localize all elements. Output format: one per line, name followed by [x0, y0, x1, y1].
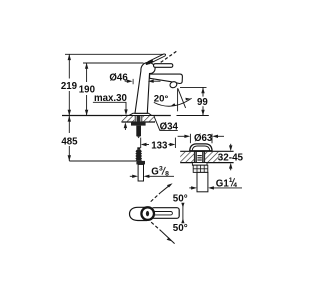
svg-text:Ø34: Ø34 [160, 121, 179, 132]
faucet shank through deck [135, 116, 142, 123]
handle pivot ring [141, 207, 154, 220]
faucet mounting nut [131, 122, 146, 126]
svg-text:485: 485 [61, 137, 78, 148]
deck bottom line [122, 121, 156, 123]
deck hatch section [122, 116, 135, 122]
svg-text:Ø46: Ø46 [109, 72, 128, 83]
svg-text:32-45: 32-45 [218, 152, 244, 163]
spout angle vertical ray [177, 88, 179, 111]
fraction slash G3/8 [162, 167, 166, 175]
svg-text:219: 219 [61, 81, 78, 92]
lever base nub [147, 61, 152, 63]
hose collar [136, 161, 145, 165]
dim 99 line [202, 87, 204, 115]
waste deck hatch [180, 152, 194, 162]
svg-text:190: 190 [79, 84, 95, 95]
svg-text:4: 4 [233, 182, 237, 189]
svg-text:20°: 20° [154, 94, 169, 105]
dim G3/8 arrows [130, 175, 133, 177]
50 deg upper leader [151, 193, 161, 202]
dim 485 line [68, 116, 70, 133]
svg-text:Ø63: Ø63 [194, 133, 213, 144]
faucet lever raised phantom (dashed) [161, 51, 177, 62]
label 190 [78, 84, 96, 95]
svg-text:max.30: max.30 [94, 93, 127, 104]
waste cap [190, 144, 212, 151]
dim 133 extension lines [140, 138, 142, 148]
lever top view [152, 208, 180, 219]
spout angle 20 deg ray [178, 89, 186, 108]
svg-text:3: 3 [159, 165, 163, 172]
faucet lever (solid raised) [148, 54, 165, 64]
svg-text:50°: 50° [173, 193, 188, 204]
hose connector tube G3/8 [138, 164, 143, 181]
waste body thread ticks [197, 156, 201, 160]
svg-text:133: 133 [151, 140, 168, 151]
fraction slash G1 1/4 [231, 178, 235, 186]
label 485 [60, 136, 78, 147]
svg-text:50°: 50° [173, 223, 188, 234]
dim G1 1/4 arrows [189, 187, 192, 189]
faucet base [129, 113, 152, 115]
label 99 [197, 97, 209, 108]
extension line (190 ref, dome top) [83, 62, 144, 64]
max.30 label underline and arrows [93, 101, 127, 103]
waste flange below deck [192, 163, 207, 166]
waste tailpipe G1 1/4 [197, 172, 208, 191]
pivot hub dot [146, 211, 149, 216]
dim 219 line [68, 54, 70, 78]
485 reference line to hose end [69, 160, 136, 162]
dim Ø63 [189, 134, 191, 143]
extension line top (219 ref, faucet top) [65, 53, 166, 55]
lever slot [151, 212, 173, 215]
waste deck lines [180, 150, 233, 152]
dim Ø46 arrows [125, 80, 129, 82]
label 219 [60, 80, 78, 92]
dim 133 line with arrows [146, 144, 150, 146]
dim 190 line [86, 63, 88, 82]
waste body through deck [194, 152, 204, 163]
hose neck [137, 147, 140, 150]
label 133 [150, 140, 168, 151]
svg-text:G: G [151, 167, 159, 178]
label Ø63 [194, 133, 213, 145]
50 deg lower leader [151, 222, 162, 231]
svg-text:G1: G1 [216, 179, 230, 190]
hose corrugated section [135, 150, 142, 161]
dim 32-45 [230, 144, 232, 147]
faucet body column with cartridge dome [135, 63, 155, 114]
Ø34 leader [154, 116, 178, 130]
20 deg arc with arrows [154, 98, 192, 106]
waste locking nut [193, 165, 208, 172]
faucet spout [150, 74, 183, 83]
svg-text:8: 8 [165, 170, 169, 177]
faucet threaded rod [136, 126, 141, 137]
faucet lever (closed, horizontal) [154, 64, 173, 68]
aerator [169, 81, 178, 89]
deck (counter) top line [62, 115, 171, 117]
lever width dim [182, 206, 184, 221]
dim 99 extension line (aerator level) [180, 86, 207, 88]
spout top view (capsule) [130, 207, 147, 220]
svg-text:99: 99 [197, 97, 208, 108]
